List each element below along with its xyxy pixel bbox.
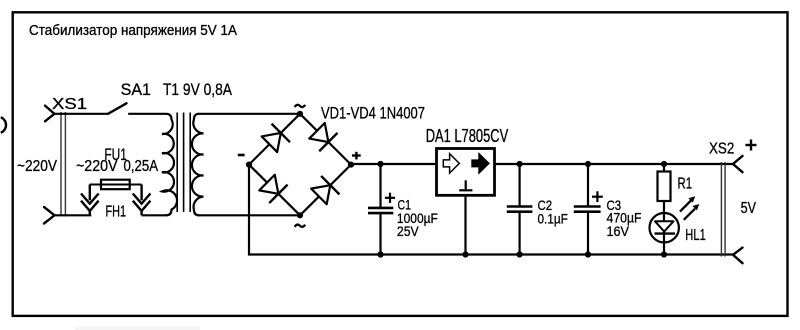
capacitor C2 plates	[507, 207, 533, 212]
svg-text:R1: R1	[678, 176, 693, 193]
XS2 mating line	[721, 162, 725, 257]
diode VD1 (top-left)	[260, 124, 290, 154]
label ~ top	[295, 105, 306, 107]
node C2 top junction	[517, 161, 523, 167]
wire minus node to ground rail	[249, 165, 733, 255]
svg-text:0,25A: 0,25A	[124, 158, 159, 175]
label ~ bottom	[295, 225, 306, 227]
wire bridge diamond	[249, 114, 351, 216]
fuse holder FH1 left contact	[81, 185, 99, 216]
label plus	[352, 152, 361, 160]
node C3 bottom junction	[585, 251, 591, 257]
connector XS1 pin 2 (bottom)	[44, 207, 55, 224]
wire R1 top lead	[663, 164, 665, 172]
wire T1 secondary bottom to bridge AC node	[198, 214, 300, 216]
svg-text:T1 9V 0,8A: T1 9V 0,8A	[163, 80, 233, 99]
resistor R1	[658, 172, 671, 202]
svg-text:VD1-VD4 1N4007: VD1-VD4 1N4007	[321, 104, 425, 123]
DA1 common symbol	[459, 180, 472, 190]
node HL1 bottom junction	[661, 251, 667, 257]
C1 polarity plus	[385, 193, 395, 203]
node minus junction	[246, 162, 252, 168]
svg-text:SA1: SA1	[121, 80, 151, 99]
diode VD4 (bottom-right)	[310, 176, 340, 206]
svg-text:~220V: ~220V	[17, 158, 58, 175]
node plus junction	[348, 162, 354, 168]
wire FH1 right contact to T1 primary bottom	[142, 214, 167, 216]
wire T1 secondary top to bridge AC node	[198, 113, 300, 115]
connector XS1 pin 1 (top)	[45, 106, 54, 122]
XS1 mating line	[61, 112, 65, 217]
transformer T1 secondary winding	[192, 114, 204, 216]
svg-text:DA1 L7805CV: DA1 L7805CV	[426, 126, 509, 146]
fuse holder FH1 right contact	[133, 185, 151, 216]
svg-text:25V: 25V	[397, 223, 419, 239]
node C2 bottom junction	[517, 251, 523, 257]
svg-text:0.1µF: 0.1µF	[538, 210, 568, 226]
node C1 bottom junction	[377, 251, 383, 257]
node AC bottom junction	[297, 212, 303, 218]
XS2 polarity plus	[745, 140, 756, 151]
node C1 top junction	[377, 161, 383, 167]
LED HL1	[650, 213, 679, 242]
transformer T1 primary winding	[162, 114, 177, 216]
svg-text:~220V: ~220V	[76, 158, 118, 175]
node C3 top junction	[585, 161, 591, 167]
wire DA1 gnd pin to ground rail	[464, 195, 466, 254]
connector XS2 pin 1 (top)	[733, 156, 743, 172]
HL1 light arrows	[680, 196, 699, 220]
capacitor C3 plates	[574, 207, 601, 212]
switch SA1 blade	[108, 103, 127, 114]
wire R1 to HL1 to ground rail	[663, 201, 665, 255]
wire +5V rail	[351, 163, 733, 165]
DA1 output arrow	[472, 153, 489, 173]
node AC top junction	[297, 111, 303, 117]
label minus	[238, 154, 245, 157]
node DA1 gnd junction	[462, 251, 468, 257]
svg-text:16V: 16V	[607, 223, 630, 239]
svg-text:XS1: XS1	[52, 96, 87, 113]
wire SA1 to T1 primary top	[128, 113, 166, 115]
transformer T1 core	[177, 113, 190, 213]
regulator DA1 body	[437, 149, 495, 196]
diode VD3 (bottom-left)	[258, 173, 288, 203]
capacitor C1 plates	[368, 208, 393, 213]
diode VD2 (top-right)	[308, 122, 338, 152]
DA1 input arrow	[443, 154, 459, 173]
wire XS1 top to SA1	[54, 113, 107, 115]
capacitor C3 leads	[587, 164, 589, 255]
svg-text:HL1: HL1	[685, 227, 706, 244]
svg-text:5V: 5V	[741, 200, 757, 217]
capacitor C1 leads	[379, 164, 381, 255]
C3 polarity plus	[592, 191, 603, 202]
connector XS2 pin 2 (bottom)	[733, 248, 743, 264]
svg-text:XS2: XS2	[709, 140, 734, 157]
wire XS1 bottom to FH1 left contact	[55, 214, 92, 216]
svg-text:FH1: FH1	[106, 204, 127, 221]
capacitor C2 leads	[518, 164, 520, 255]
svg-text:Стабилизатор напряжения 5V 1A: Стабилизатор напряжения 5V 1A	[29, 23, 237, 39]
node R1 top junction	[661, 161, 667, 167]
fuse FU1	[90, 180, 142, 190]
